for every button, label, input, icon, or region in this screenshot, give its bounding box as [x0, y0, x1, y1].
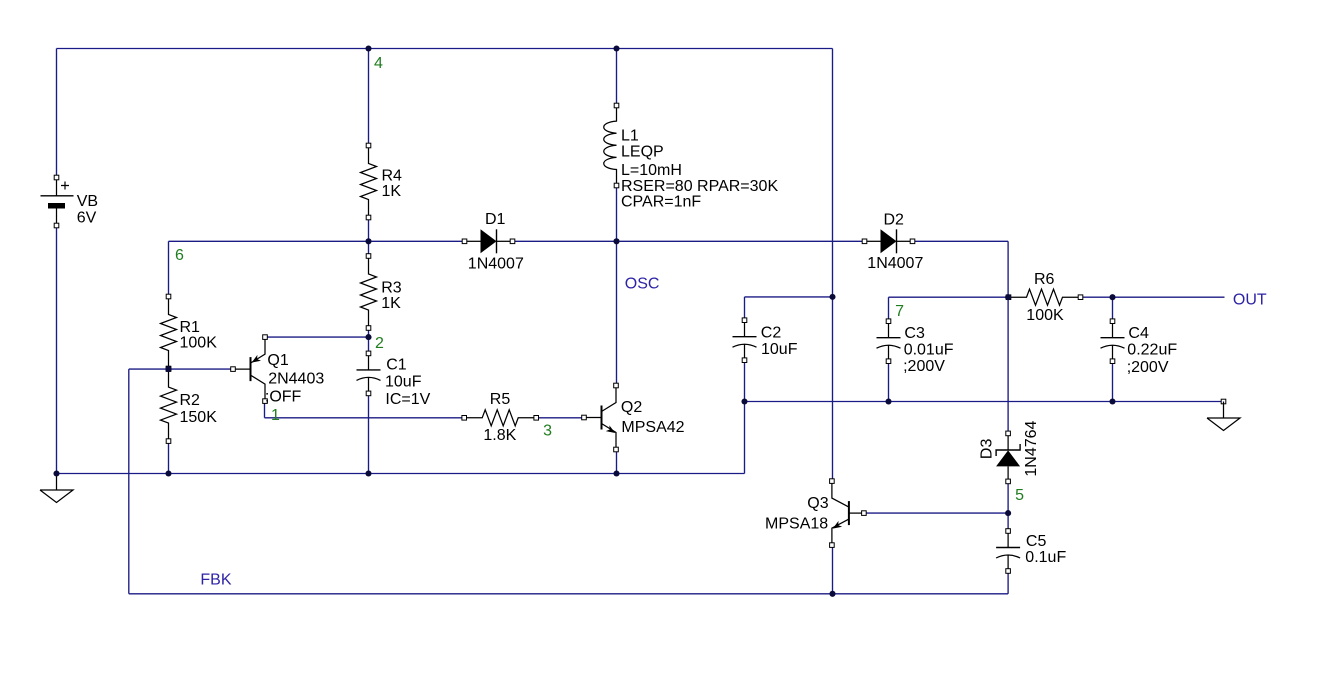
- junction R1/R2/base: [165, 366, 171, 372]
- diode D2: [865, 240, 881, 242]
- wire D1 anode: [369, 240, 465, 242]
- wire node 7 drop to C3: [888, 297, 890, 321]
- svg-text:1K: 1K: [381, 295, 401, 312]
- junction node 7/R6: [1005, 294, 1011, 300]
- svg-text:6V: 6V: [77, 209, 97, 226]
- wire ground rail: [57, 473, 745, 475]
- junction OSC node: [613, 238, 619, 244]
- svg-text:L=10mH: L=10mH: [621, 162, 682, 179]
- svg-text:7: 7: [895, 303, 904, 320]
- wire node 6 horizontal: [169, 240, 369, 242]
- wire D1 cathode to OSC node: [513, 240, 617, 242]
- svg-text:;OFF: ;OFF: [265, 389, 302, 406]
- capacitor C2: [744, 320, 746, 337]
- wire battery bottom lead: [56, 226, 58, 474]
- wire OUT run: [1113, 296, 1225, 298]
- svg-text:C1: C1: [386, 357, 407, 374]
- svg-text:MPSA42: MPSA42: [621, 419, 684, 436]
- junction C3 bottom: [885, 398, 891, 404]
- junction C2 bottom rail: [741, 398, 747, 404]
- svg-text:C3: C3: [904, 325, 925, 342]
- wire Q1 collector drop: [264, 401, 266, 418]
- svg-text:D3: D3: [979, 439, 996, 460]
- svg-text:IC=1V: IC=1V: [385, 391, 430, 408]
- wire OSC node to Q2 collector: [616, 241, 618, 385]
- resistor R4: [361, 146, 377, 218]
- svg-text:0.22uF: 0.22uF: [1127, 342, 1177, 359]
- wire R6 out to C4 node: [1081, 296, 1113, 298]
- junction R4/R3/D1: [365, 238, 371, 244]
- svg-text:R2: R2: [180, 392, 201, 409]
- wire L1 top feed: [616, 49, 618, 106]
- svg-text:100K: 100K: [180, 335, 218, 352]
- wire node 1 run: [265, 417, 465, 419]
- svg-text:Q1: Q1: [267, 352, 288, 369]
- wire C2 bottom lead: [744, 360, 746, 401]
- capacitor C4: [1112, 321, 1114, 338]
- wire C4 bottom lead: [1112, 361, 1114, 401]
- svg-text:5: 5: [1015, 487, 1024, 504]
- capacitor C5: [1007, 531, 1009, 548]
- wire ground rail riser: [744, 402, 746, 474]
- junction node 4 top: [365, 45, 371, 51]
- wire C4 top lead: [1112, 297, 1114, 321]
- svg-text:1: 1: [271, 407, 280, 424]
- junction R2 ground: [165, 470, 171, 476]
- wire FBK rail: [129, 593, 1008, 595]
- wire R4 to node 4 junction: [368, 218, 370, 257]
- svg-text:R3: R3: [381, 280, 402, 297]
- resistor R1: [161, 297, 177, 369]
- wire C2 top rail: [745, 296, 833, 298]
- wire D3 to node 5: [1007, 481, 1009, 531]
- svg-text:150K: 150K: [180, 409, 218, 426]
- svg-text:4: 4: [374, 55, 383, 72]
- svg-text:6: 6: [175, 247, 184, 264]
- junction L1 top: [613, 45, 619, 51]
- junction node 2: [365, 334, 371, 340]
- svg-text:;200V: ;200V: [1127, 359, 1169, 376]
- wire FBK riser: [128, 369, 130, 594]
- svg-text:0.01uF: 0.01uF: [904, 341, 954, 358]
- svg-text:C4: C4: [1128, 325, 1149, 342]
- wire C1 bottom drop: [368, 393, 370, 473]
- wire R2 bottom to ground: [168, 441, 170, 473]
- svg-text:Q2: Q2: [621, 399, 642, 416]
- junction C2 rail/riser: [829, 294, 835, 300]
- svg-text:100K: 100K: [1026, 307, 1064, 324]
- wire D3 top feed: [1007, 297, 1009, 433]
- wire Q1 emitter to node 2: [265, 336, 369, 338]
- wire top rail: [57, 48, 833, 50]
- svg-text:1N4764: 1N4764: [1023, 420, 1040, 476]
- svg-text:CPAR=1nF: CPAR=1nF: [621, 193, 701, 210]
- svg-text:2: 2: [375, 335, 384, 352]
- svg-text:FBK: FBK: [200, 572, 231, 589]
- ground right: [1221, 399, 1226, 404]
- svg-text:R1: R1: [180, 319, 201, 336]
- svg-text:R4: R4: [382, 168, 403, 185]
- junction Q3 emitter FBK: [829, 591, 835, 597]
- battery VB: [56, 178, 58, 196]
- wire Q3 emitter drop: [832, 545, 834, 594]
- wire L1 bottom to OSC node: [616, 186, 618, 242]
- svg-text:1N4007: 1N4007: [468, 256, 524, 273]
- wire node 7 horizontal: [889, 296, 1009, 298]
- svg-text:R6: R6: [1034, 271, 1055, 288]
- svg-text:D2: D2: [884, 212, 905, 229]
- wire right top riser: [832, 49, 834, 482]
- svg-text:;200V: ;200V: [903, 358, 945, 375]
- junction battery/ground: [53, 470, 59, 476]
- inductor L1: [604, 106, 617, 186]
- svg-text:10uF: 10uF: [385, 373, 422, 390]
- svg-text:1.8K: 1.8K: [483, 427, 516, 444]
- svg-text:1N4007: 1N4007: [867, 255, 923, 272]
- wire Q3 base run: [864, 512, 1008, 514]
- svg-text:0.1uF: 0.1uF: [1025, 549, 1066, 566]
- svg-text:OUT: OUT: [1233, 291, 1267, 308]
- svg-text:L1: L1: [621, 128, 639, 145]
- wire R5 to Q2 base: [536, 417, 584, 419]
- svg-text:MPSA18: MPSA18: [765, 516, 828, 533]
- junction Q2 emitter ground: [613, 470, 619, 476]
- wire mid rail: [745, 401, 1224, 403]
- junction C1 ground: [365, 470, 371, 476]
- transistor Q3: [848, 501, 850, 525]
- junction C4 bottom: [1109, 398, 1115, 404]
- svg-text:LEQP: LEQP: [621, 143, 664, 160]
- wire C3 bottom lead: [888, 361, 890, 401]
- wire battery top lead: [56, 49, 58, 178]
- wire D2 drop to node 7 rail: [1007, 241, 1009, 297]
- junction C4 top/OUT: [1109, 294, 1115, 300]
- resistor R2: [161, 369, 177, 441]
- svg-text:D1: D1: [485, 211, 506, 228]
- transistor Q2: [601, 406, 603, 430]
- wire Q2 emitter to ground rail: [616, 450, 618, 474]
- zener diode D3: [1007, 433, 1009, 450]
- resistor R3: [361, 256, 377, 328]
- svg-text:10uF: 10uF: [761, 341, 798, 358]
- capacitor C3: [888, 321, 890, 338]
- wire R4 top feed: [368, 49, 370, 146]
- svg-text:1K: 1K: [382, 183, 402, 200]
- resistor R5: [464, 410, 536, 426]
- resistor R6: [1009, 289, 1081, 305]
- wire Q1 base run: [129, 368, 233, 370]
- wire C2 top lead: [744, 297, 746, 320]
- wire R3 bottom stub: [368, 328, 370, 337]
- diode D1: [465, 240, 481, 242]
- junction node 5: [1005, 510, 1011, 516]
- ground left: [40, 474, 73, 503]
- wire node 6 drop to R1: [168, 241, 170, 296]
- transistor Q1: [250, 357, 252, 381]
- wire D2 anode feed: [617, 240, 865, 242]
- svg-text:OSC: OSC: [625, 275, 660, 292]
- svg-text:R5: R5: [490, 391, 511, 408]
- svg-text:C2: C2: [761, 325, 782, 342]
- wire C5 bottom lead: [1007, 571, 1009, 594]
- svg-text:Q3: Q3: [807, 495, 828, 512]
- svg-text:C5: C5: [1026, 533, 1047, 550]
- wire node 2 to C1: [368, 337, 370, 353]
- wire D2 cathode run: [913, 240, 1009, 242]
- capacitor C1: [368, 353, 370, 370]
- svg-text:2N4403: 2N4403: [268, 371, 324, 388]
- svg-text:VB: VB: [77, 193, 98, 210]
- svg-text:3: 3: [543, 423, 552, 440]
